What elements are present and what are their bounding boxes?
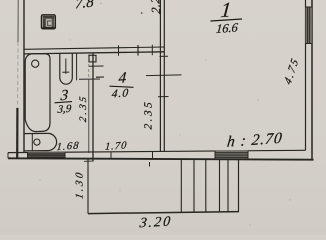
tick on bath/hall wall xyxy=(89,65,104,67)
underline room 4 xyxy=(110,86,134,87)
bathtub xyxy=(25,54,50,132)
stair step line 4 xyxy=(219,159,221,212)
tick on stairwell left line xyxy=(84,160,93,162)
underline room 1 xyxy=(211,19,243,21)
door tick kitchen wall 2 xyxy=(137,45,139,56)
sink drain circle xyxy=(34,139,40,145)
stairwell bottom line xyxy=(88,212,239,214)
stove icon kitchen xyxy=(41,15,55,29)
svg-text:16.6: 16.6 xyxy=(215,20,239,36)
stairwell left line xyxy=(87,158,89,213)
svg-text:7.8: 7.8 xyxy=(75,0,95,12)
sink divider line xyxy=(31,134,33,151)
bottom wall top line xyxy=(8,150,306,152)
wall right outer line xyxy=(311,0,313,160)
jamb in bottom wall at hall right xyxy=(152,151,154,159)
tick on hall/room1 wall lower xyxy=(158,96,169,98)
tick on hall/room1 wall upper xyxy=(160,55,169,57)
small box at bath wall junction xyxy=(89,55,96,62)
svg-text:2.2: 2.2 xyxy=(148,0,164,14)
wall kitchen/bath top line xyxy=(24,47,164,49)
svg-text:3,9: 3,9 xyxy=(56,103,72,116)
svg-text:2.35: 2.35 xyxy=(143,99,155,129)
svg-text:1.30: 1.30 xyxy=(75,170,86,200)
window band right wall xyxy=(306,7,313,44)
svg-text:4: 4 xyxy=(118,69,127,87)
wall hall/room1 right line xyxy=(163,0,165,152)
svg-text:1.68: 1.68 xyxy=(56,141,80,154)
stair step line 3 xyxy=(205,159,207,212)
sink outline xyxy=(24,133,56,150)
stair step line 1 xyxy=(180,159,182,212)
wall left outer line top xyxy=(17,0,19,42)
scan specks xyxy=(39,3,290,226)
wall bath/hall left line upper dashed xyxy=(88,54,90,80)
wall hall/room1 left line xyxy=(159,0,161,152)
svg-text:2.35: 2.35 xyxy=(78,93,89,122)
svg-text:1.70: 1.70 xyxy=(105,140,128,153)
wall left outer line bottom xyxy=(16,108,18,159)
filled band bottom wall stairwell xyxy=(215,150,248,159)
toilet center line xyxy=(65,59,67,74)
door line across hall/room1 wall xyxy=(146,74,182,77)
toilet bowl xyxy=(60,53,73,84)
wall right inner line xyxy=(305,0,307,150)
svg-text:3.20: 3.20 xyxy=(138,214,173,232)
bathtub drain circle xyxy=(32,60,39,67)
underline room 3 xyxy=(55,102,73,103)
stairwell right line xyxy=(238,159,240,211)
wall bath/hall left line lower xyxy=(88,80,90,153)
door tick kitchen wall 3 xyxy=(151,45,153,56)
tick crossing bottom wall at hall left xyxy=(110,152,112,159)
wall left outer line middle xyxy=(17,42,19,108)
bottom wall bottom line xyxy=(8,158,314,159)
small dash below bottom wall xyxy=(149,162,151,167)
svg-text:4.0: 4.0 xyxy=(111,86,129,100)
dash left of room 4 label xyxy=(96,76,104,78)
wall bath/hall right line xyxy=(92,53,94,162)
bottom wall left end cap xyxy=(7,153,9,159)
door tick kitchen wall 1 xyxy=(118,45,120,56)
toilet cross tick xyxy=(62,71,69,73)
wall kitchen/bath bottom line xyxy=(24,52,164,54)
stair step line 2 xyxy=(193,159,195,212)
wall left inner line xyxy=(23,0,25,153)
bath door threshold line xyxy=(79,78,100,80)
stair step line 5 xyxy=(227,159,229,211)
riser pipe line xyxy=(76,53,78,80)
filled band bottom wall bathroom xyxy=(28,152,66,159)
